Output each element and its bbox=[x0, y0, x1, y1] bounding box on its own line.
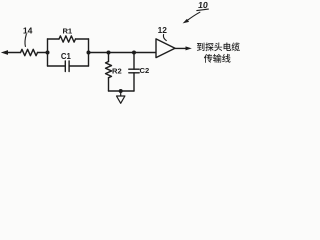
op-amp 12 bbox=[156, 39, 175, 58]
wire top branch right bbox=[76, 38, 89, 40]
input line arrowhead (left) bbox=[1, 50, 8, 55]
node junction dot right bbox=[87, 51, 91, 55]
output arrowhead bbox=[186, 46, 192, 50]
svg-text:14: 14 bbox=[23, 25, 33, 35]
node junction dot C2 bbox=[132, 51, 136, 55]
wire main to amplifier bbox=[89, 52, 157, 54]
wire R2 bottom bbox=[108, 78, 110, 91]
svg-text:10: 10 bbox=[197, 0, 208, 10]
leader arrow 10 bbox=[187, 12, 200, 21]
node junction dot left bbox=[46, 51, 50, 55]
node junction dot R2 bbox=[107, 51, 111, 55]
underline of 10 bbox=[197, 9, 209, 11]
label output text line1: 到探头电缆 bbox=[197, 42, 240, 51]
capacitor C1 bbox=[65, 61, 69, 72]
svg-text:12: 12 bbox=[158, 25, 168, 35]
capacitor C2 bbox=[129, 69, 139, 73]
wire bottom branch right bbox=[69, 65, 88, 67]
ground bbox=[117, 91, 125, 103]
node junction dot ground bbox=[119, 89, 123, 93]
resistor R2 bbox=[106, 62, 112, 78]
output wire bbox=[175, 47, 187, 49]
svg-text:R2: R2 bbox=[112, 66, 122, 75]
wire C2 top bbox=[133, 53, 135, 70]
wire: left bar of RC block bbox=[47, 39, 49, 66]
svg-text:C2: C2 bbox=[140, 66, 150, 75]
wire R2 top bbox=[108, 53, 110, 62]
wire bottom rail bbox=[109, 90, 135, 92]
wire bottom branch left bbox=[48, 65, 66, 67]
leader from 14 bbox=[25, 34, 26, 46]
resistor 14 bbox=[21, 49, 38, 55]
resistor R1 bbox=[59, 36, 76, 42]
label output text line2: 传输线 bbox=[204, 54, 231, 63]
wire: right bar of RC block bbox=[88, 39, 90, 66]
wire bbox=[7, 52, 21, 54]
leader from 12 bbox=[163, 35, 166, 41]
wire top branch left bbox=[48, 38, 60, 40]
svg-text:R1: R1 bbox=[62, 27, 72, 36]
svg-text:C1: C1 bbox=[61, 52, 72, 61]
wire C2 bottom bbox=[133, 73, 135, 91]
wire bbox=[38, 52, 48, 54]
